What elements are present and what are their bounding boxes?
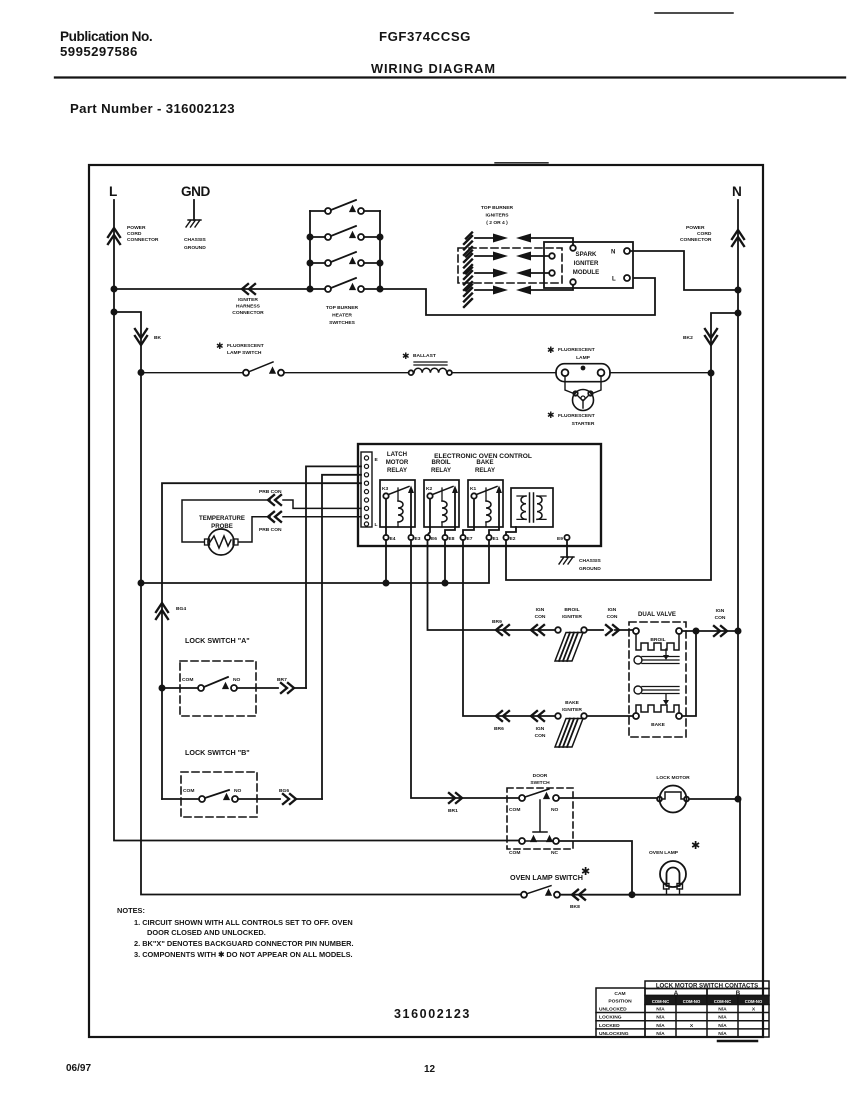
wire door switch NO to lock motor	[559, 797, 656, 799]
wire EOC pin 2 / lock switch A return riser	[306, 466, 361, 688]
svg-text:DUAL VALVE: DUAL VALVE	[638, 611, 676, 618]
svg-text:FLUORESCENT: FLUORESCENT	[227, 343, 264, 349]
junction N bus BK2 branch	[735, 310, 742, 317]
wire fluorescent lamp row	[141, 372, 711, 374]
top burner switch row 2	[310, 226, 380, 237]
wire spark module N to N bus	[630, 251, 735, 290]
wire door switch NC to oven lamp row	[559, 841, 632, 892]
door switch linkage	[533, 800, 547, 832]
wire N vertical bus	[737, 200, 739, 799]
svg-text:FGF374CCSG: FGF374CCSG	[379, 29, 471, 44]
igniter harness connector arrow	[242, 284, 255, 294]
wire EOC pin 4 / BG4 riser to lock switches	[162, 483, 361, 799]
power cord connector chevron (N)	[732, 230, 744, 246]
svg-text:BK: BK	[154, 335, 162, 341]
wire E1 neutral line	[141, 540, 489, 583]
svg-text:OVEN LAMP: OVEN LAMP	[649, 850, 679, 856]
bake valve symbol	[634, 686, 642, 694]
svg-text:SPARK: SPARK	[576, 251, 597, 258]
door switch top pole	[519, 795, 525, 801]
IGN CON chevron left (broil)	[531, 625, 544, 635]
node L label	[109, 184, 117, 199]
ballast	[402, 351, 436, 361]
lock switch B label	[185, 748, 250, 757]
footer	[66, 1063, 436, 1075]
lock motor label	[656, 775, 690, 781]
wire probe right to PRB CON to EOC pin 9	[239, 517, 362, 542]
svg-text:FLUORESCENT: FLUORESCENT	[558, 413, 595, 419]
svg-text:BG6: BG6	[279, 788, 289, 794]
svg-text:COM: COM	[182, 677, 193, 683]
svg-text:BR6: BR6	[494, 726, 504, 732]
relay terminal stubs	[386, 527, 499, 535]
wire GND stub	[193, 200, 195, 220]
svg-text:HEATER: HEATER	[332, 313, 352, 319]
svg-text:X: X	[752, 1007, 756, 1013]
svg-text:BAKE: BAKE	[651, 722, 666, 728]
svg-text:✱: ✱	[216, 341, 224, 351]
svg-text:BAKE: BAKE	[476, 459, 493, 466]
wire lock motor to N bus	[689, 798, 735, 800]
svg-text:MOTOR: MOTOR	[386, 459, 409, 466]
svg-text:E3: E3	[415, 536, 421, 542]
junction N bus broil row	[735, 628, 742, 635]
BR7 chevron right	[281, 683, 294, 693]
dual valve right bus	[682, 631, 696, 716]
dual valve dashed box	[629, 622, 686, 737]
fluorescent starter	[565, 376, 601, 394]
wire E4 drop	[385, 540, 387, 583]
junction L/BK branch	[111, 309, 118, 316]
igniter electrode row 3	[464, 268, 472, 291]
svg-text:POWER: POWER	[686, 225, 705, 231]
svg-text:IGNITER: IGNITER	[238, 297, 258, 303]
temperature probe	[208, 529, 234, 555]
svg-text:BG4: BG4	[176, 606, 186, 612]
svg-text:LATCH: LATCH	[387, 451, 407, 458]
spark igniter module box	[544, 242, 633, 288]
svg-text:E: E	[375, 457, 379, 463]
top burner heater switches label	[326, 305, 359, 326]
svg-text:CORD: CORD	[697, 231, 712, 237]
oven lamp switch label	[510, 866, 590, 882]
wire E6 to broil igniter row	[428, 540, 556, 630]
svg-text:1. CIRCUIT SHOWN WITH ALL CON: 1. CIRCUIT SHOWN WITH ALL CONTROLS SET T…	[134, 918, 353, 927]
svg-text:E4: E4	[390, 536, 396, 542]
svg-text:CON: CON	[715, 615, 726, 621]
wire L vertical bus to door switch COM row	[114, 200, 519, 841]
svg-text:STARTER: STARTER	[572, 421, 595, 427]
wire E7 to bake igniter row	[463, 540, 555, 716]
svg-text:RELAY: RELAY	[387, 467, 407, 474]
svg-text:N/A: N/A	[718, 1031, 727, 1037]
svg-text:N/A: N/A	[656, 1015, 665, 1021]
PRB CON arrow bottom	[268, 512, 281, 522]
header rule	[55, 76, 845, 78]
svg-text:BK8: BK8	[570, 904, 580, 910]
broil igniter	[555, 627, 561, 633]
wire BK branch: L to lamp circuits	[114, 312, 521, 895]
top burner heater switches left bus	[309, 211, 311, 289]
wire BK2: E2 to N bus	[506, 313, 735, 580]
svg-text:COM-NC: COM-NC	[714, 999, 731, 1004]
svg-text:COM-NO: COM-NO	[745, 999, 763, 1004]
svg-text:K3: K3	[382, 486, 389, 492]
dual valve label	[638, 611, 676, 618]
svg-text:316002123: 316002123	[394, 1007, 471, 1021]
top burner switch row 3	[310, 252, 380, 263]
svg-text:3. COMPONENTS WITH ✱ DO NOT A: 3. COMPONENTS WITH ✱ DO NOT APPEAR ON AL…	[134, 950, 353, 959]
wire E3 to door switch COM	[411, 540, 519, 798]
oven lamp	[660, 861, 686, 887]
wire switches to spark module L	[380, 278, 655, 315]
svg-text:LAMP SWITCH: LAMP SWITCH	[227, 350, 262, 356]
svg-text:COM: COM	[183, 788, 194, 794]
wire main L feed to top burner switches	[114, 288, 310, 290]
lock switch B	[162, 790, 280, 799]
broil solenoid	[633, 628, 639, 634]
svg-text:N/A: N/A	[718, 1007, 727, 1013]
svg-text:06/97: 06/97	[66, 1063, 91, 1074]
svg-text:HARNESS: HARNESS	[236, 304, 261, 310]
lock switch A label	[185, 636, 250, 645]
svg-text:CON: CON	[535, 733, 546, 739]
junction BK at E1 line	[138, 580, 145, 587]
svg-text:5995297586: 5995297586	[60, 44, 138, 59]
svg-text:B: B	[736, 990, 741, 997]
junction E4 on E1 line	[383, 580, 390, 587]
svg-text:BR7: BR7	[277, 677, 287, 683]
svg-text:BAKE: BAKE	[565, 700, 580, 706]
svg-text:LOCKING: LOCKING	[599, 1015, 622, 1021]
svg-text:IGNITER: IGNITER	[562, 614, 582, 620]
svg-text:SWITCH: SWITCH	[530, 780, 550, 786]
temperature probe label	[199, 515, 245, 530]
top-right scan mark	[655, 12, 733, 14]
svg-text:POSITION: POSITION	[608, 999, 632, 1005]
lock motor switch contacts table	[596, 981, 769, 1037]
svg-text:MODULE: MODULE	[573, 269, 599, 276]
oven lamp switch	[521, 892, 527, 898]
svg-text:PRB CON: PRB CON	[259, 527, 282, 533]
junction N bus spark feed	[735, 287, 742, 294]
table scan mark	[718, 1040, 757, 1043]
svg-text:N/A: N/A	[656, 1023, 665, 1029]
top burner igniters label	[481, 205, 514, 226]
igniter row 4 arrows and wire	[475, 285, 573, 290]
svg-text:BR1: BR1	[448, 808, 458, 814]
EOC terminals E4 E3 E6 E8 E7 E1 E2	[383, 535, 388, 540]
svg-text:NO: NO	[551, 807, 559, 813]
svg-text:NOTES:: NOTES:	[117, 906, 145, 915]
svg-text:TOP BURNER: TOP BURNER	[481, 205, 514, 211]
svg-text:IGN: IGN	[608, 607, 617, 613]
oven lamp label	[649, 840, 700, 856]
svg-text:E6: E6	[431, 536, 437, 542]
svg-text:IGN: IGN	[716, 608, 725, 614]
junction E8 on E1 line	[442, 580, 449, 587]
svg-text:LOCK MOTOR SWITCH CONTACTS: LOCK MOTOR SWITCH CONTACTS	[656, 982, 758, 989]
bake igniter label	[562, 700, 582, 713]
svg-text:NO: NO	[233, 677, 241, 683]
header publication text	[60, 29, 496, 116]
svg-text:NO: NO	[234, 788, 242, 794]
notes	[117, 906, 354, 959]
BR9 chevron left	[496, 625, 509, 635]
svg-text:CONNECTOR: CONNECTOR	[680, 237, 712, 243]
BR1 chevron right	[449, 793, 462, 803]
svg-text:✱: ✱	[547, 345, 555, 355]
svg-text:COM: COM	[509, 807, 520, 813]
svg-text:IGNITERS: IGNITERS	[485, 213, 509, 219]
svg-text:E8: E8	[449, 536, 455, 542]
part number	[394, 1007, 471, 1021]
chassis ground symbol (GND)	[186, 220, 201, 227]
svg-text:IGNITER: IGNITER	[574, 260, 599, 267]
svg-text:✱: ✱	[402, 351, 410, 361]
wire EOC pin 3 / lock switch B return riser	[322, 475, 361, 799]
svg-text:L: L	[109, 184, 117, 199]
svg-text:A: A	[674, 990, 679, 997]
svg-text:LOCK SWITCH "B": LOCK SWITCH "B"	[185, 748, 250, 757]
wire dual valve to N bus	[696, 630, 735, 632]
PRB CON arrow top	[268, 495, 281, 505]
svg-text:N/A: N/A	[656, 1007, 665, 1013]
lock switch A dashed box	[180, 661, 256, 716]
svg-text:CHASSIS: CHASSIS	[579, 558, 601, 564]
svg-text:Publication No.: Publication No.	[60, 29, 152, 44]
svg-text:COM: COM	[509, 850, 520, 856]
BR6 chevron left (bake)	[496, 711, 509, 721]
junction oven lamp row	[629, 891, 636, 898]
junction BK2 lamp row	[708, 370, 715, 377]
spark module N terminal	[624, 248, 630, 254]
BG4 chevron up	[156, 603, 168, 619]
svg-text:CONNECTOR: CONNECTOR	[232, 310, 264, 316]
svg-text:CON: CON	[535, 614, 546, 620]
latch motor relay label	[386, 451, 495, 474]
lock motor	[660, 786, 687, 813]
svg-text:12: 12	[424, 1064, 436, 1075]
spark module L terminal	[624, 275, 630, 281]
svg-text:GROUND: GROUND	[184, 245, 206, 251]
svg-text:✱: ✱	[581, 866, 590, 878]
junction BK lamp row	[138, 369, 145, 376]
svg-text:N/A: N/A	[718, 1015, 727, 1021]
igniter row 1 arrows and wire	[475, 238, 573, 245]
svg-text:RELAY: RELAY	[431, 467, 451, 474]
svg-text:FLUORESCENT: FLUORESCENT	[558, 347, 595, 353]
svg-text:WIRING DIAGRAM: WIRING DIAGRAM	[371, 61, 496, 76]
svg-text:E7: E7	[467, 536, 473, 542]
fluorescent lamp	[547, 345, 595, 361]
svg-text:LOCK MOTOR: LOCK MOTOR	[656, 775, 690, 781]
broil valve symbol	[665, 649, 667, 655]
svg-text:E1: E1	[493, 536, 499, 542]
wire lock B NO to riser	[296, 798, 322, 800]
svg-text:SWITCHES: SWITCHES	[329, 320, 356, 326]
top burner switch row 1	[310, 200, 380, 211]
svg-text:✱: ✱	[691, 840, 700, 852]
svg-text:COM-NC: COM-NC	[652, 999, 669, 1004]
svg-text:BALLAST: BALLAST	[413, 353, 436, 359]
svg-text:OVEN LAMP SWITCH: OVEN LAMP SWITCH	[510, 873, 583, 882]
fluorescent lamp switch	[216, 341, 264, 356]
wire bake igniter to dual valve	[587, 715, 633, 717]
igniter row 3 arrows and wire	[475, 272, 549, 274]
svg-text:CAM: CAM	[614, 991, 625, 997]
IGN CON chevron right (valve out)	[714, 626, 727, 636]
door switch dashed box	[507, 788, 573, 849]
svg-text:CONNECTOR: CONNECTOR	[127, 237, 159, 243]
junctions on switch buses	[307, 234, 314, 241]
node N label	[732, 184, 741, 199]
svg-text:2. BK"X" DENOTES BACKGUARD CO: 2. BK"X" DENOTES BACKGUARD CONNECTOR PIN…	[134, 939, 354, 948]
junction N bus lock motor row	[735, 796, 742, 803]
svg-text:GROUND: GROUND	[579, 566, 601, 572]
bake igniter	[555, 713, 561, 719]
relay K3 (latch motor)	[380, 480, 415, 527]
svg-text:IGNITER: IGNITER	[562, 707, 582, 713]
electronic oven control box	[358, 444, 601, 546]
wire E8 drop	[444, 540, 446, 583]
GND label	[181, 184, 210, 199]
BK8 chevron left	[572, 890, 585, 900]
svg-text:LAMP: LAMP	[576, 355, 591, 361]
svg-text:K1: K1	[470, 486, 477, 492]
dashed enclosure around igniters	[458, 248, 562, 283]
BK2 chevron down	[705, 329, 717, 345]
svg-text:X: X	[690, 1023, 694, 1029]
igniter row 2 arrows and wire	[475, 255, 549, 257]
wire oven lamp switch to lamp	[560, 801, 740, 895]
svg-text:CHASSIS: CHASSIS	[184, 237, 206, 243]
broil igniter label	[562, 607, 582, 620]
svg-text:IGN: IGN	[536, 726, 545, 732]
svg-text:BROIL: BROIL	[650, 637, 665, 643]
EOC terminal E9 with chassis ground	[564, 535, 569, 540]
svg-text:DOOR CLOSED AND UNLOCKED.: DOOR CLOSED AND UNLOCKED.	[147, 928, 266, 937]
lock switch A	[162, 677, 278, 688]
svg-text:( 2 OR 4 ): ( 2 OR 4 )	[486, 220, 508, 226]
wire broil igniter to dual valve	[587, 629, 633, 631]
EOC transformer	[511, 488, 553, 527]
svg-text:BROIL: BROIL	[564, 607, 579, 613]
svg-text:CON: CON	[607, 614, 618, 620]
svg-text:BK2: BK2	[683, 335, 693, 341]
relay K2 (broil)	[424, 480, 459, 527]
igniter electrode row 1	[464, 233, 472, 256]
transformer to E2 stub	[506, 527, 516, 535]
BK chevron down	[135, 329, 147, 345]
door switch bottom pole	[519, 838, 525, 844]
svg-text:N/A: N/A	[718, 1023, 727, 1029]
power cord connector chevron (L)	[108, 228, 120, 244]
top burner heater switches right bus	[379, 211, 381, 289]
svg-text:L: L	[375, 522, 378, 528]
junction BG4 riser lock A	[159, 685, 166, 692]
svg-text:IGN: IGN	[536, 607, 545, 613]
wire probe left to PRB CON to EOC pin 8	[182, 500, 361, 542]
svg-text:TEMPERATURE: TEMPERATURE	[199, 515, 245, 522]
svg-text:Part Number - 316002123: Part Number - 316002123	[70, 101, 235, 116]
svg-text:E2: E2	[510, 536, 516, 542]
svg-text:UNLOCKING: UNLOCKING	[599, 1031, 629, 1037]
svg-text:UNLOCKED: UNLOCKED	[599, 1007, 627, 1013]
svg-text:N/A: N/A	[656, 1031, 665, 1037]
relay K1 (bake)	[468, 480, 503, 527]
bake solenoid	[633, 713, 639, 719]
svg-text:N: N	[611, 249, 615, 256]
top burner switch row 4	[310, 278, 380, 289]
igniter electrode row 4	[464, 285, 472, 308]
IGN CON chevron left (bake)	[531, 711, 544, 721]
svg-text:POWER: POWER	[127, 225, 146, 231]
svg-text:CORD: CORD	[127, 231, 142, 237]
svg-text:DOOR: DOOR	[533, 773, 548, 779]
door switch label	[530, 773, 550, 786]
wire lock A NO to riser	[294, 687, 306, 689]
svg-text:PRB CON: PRB CON	[259, 489, 282, 495]
svg-text:LOCK SWITCH "A": LOCK SWITCH "A"	[185, 636, 250, 645]
svg-text:BROIL: BROIL	[432, 459, 451, 466]
svg-text:LOCKED: LOCKED	[599, 1023, 620, 1029]
svg-text:K2: K2	[426, 486, 433, 492]
svg-text:N: N	[732, 184, 741, 199]
junction L/main wire	[111, 286, 118, 293]
svg-text:BR9: BR9	[492, 619, 502, 625]
EOC connector strip	[361, 452, 372, 527]
svg-text:NC: NC	[551, 850, 559, 856]
svg-text:COM-NO: COM-NO	[683, 999, 701, 1004]
svg-text:GND: GND	[181, 184, 210, 199]
IGN CON chevron right (broil out)	[606, 625, 619, 635]
main border frame	[89, 165, 763, 1037]
svg-text:RELAY: RELAY	[475, 467, 495, 474]
igniter electrode row 2	[464, 251, 472, 274]
svg-text:E9: E9	[557, 536, 563, 542]
svg-text:✱: ✱	[547, 410, 555, 420]
lock switch B dashed box	[181, 772, 257, 817]
svg-text:TOP BURNER: TOP BURNER	[326, 305, 359, 311]
BG6 chevron right	[283, 794, 296, 804]
svg-text:L: L	[612, 276, 616, 283]
